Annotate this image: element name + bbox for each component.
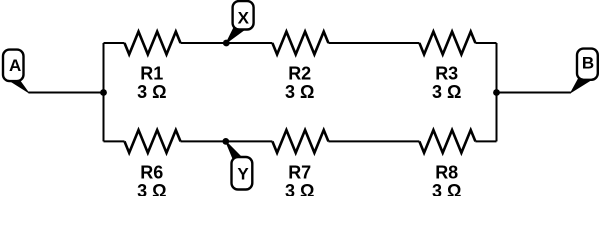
- svg-text:3 Ω: 3 Ω: [285, 82, 314, 102]
- node flag Y: [226, 141, 253, 189]
- wire R7 to R8: [328, 140, 419, 142]
- wire R6 to R7 (node Y segment): [181, 140, 273, 142]
- junction dot right node: [493, 89, 500, 96]
- resistor R2: [272, 32, 328, 55]
- label R6 designator text: [140, 162, 163, 182]
- node Y junction dot: [222, 138, 229, 145]
- svg-text:R6: R6: [140, 162, 163, 182]
- label R6 value "3 Ohm": [137, 181, 166, 201]
- label R3 designator text: [435, 63, 458, 83]
- resistor R6: [125, 130, 181, 153]
- label R2 value "3 Ohm": [285, 82, 314, 102]
- label R7 designator text: [288, 162, 311, 182]
- wire left vertical: [103, 43, 105, 141]
- label R7 value "3 Ohm": [285, 181, 314, 201]
- svg-text:R8: R8: [435, 162, 458, 182]
- node X junction dot: [223, 40, 230, 47]
- wire top stub right: [475, 42, 496, 44]
- resistor R7: [272, 130, 328, 153]
- label R3 value "3 Ohm": [432, 82, 461, 102]
- svg-text:3 Ω: 3 Ω: [285, 181, 314, 196]
- label R1 designator text: [140, 63, 163, 83]
- svg-text:3 Ω: 3 Ω: [137, 82, 166, 102]
- wire R2 to R3: [328, 42, 419, 44]
- label R8 designator text: [435, 162, 458, 182]
- node flag B: [571, 49, 598, 93]
- svg-text:R7: R7: [288, 162, 311, 182]
- wire bottom stub right: [475, 140, 496, 142]
- junction dot left node: [100, 89, 107, 96]
- svg-text:A: A: [9, 56, 21, 75]
- wire R1 to R2 (node X segment): [181, 42, 273, 44]
- label R1 value "3 Ohm": [137, 82, 166, 102]
- node flag A: [3, 50, 28, 93]
- wire right vertical: [496, 43, 498, 141]
- svg-text:3 Ω: 3 Ω: [432, 82, 461, 102]
- svg-text:R3: R3: [435, 63, 458, 83]
- label R8 value "3 Ohm": [432, 181, 461, 201]
- svg-text:R1: R1: [140, 63, 163, 83]
- svg-text:Y: Y: [237, 165, 249, 184]
- resistor R1: [125, 32, 181, 55]
- svg-text:3 Ω: 3 Ω: [432, 181, 461, 196]
- svg-text:3 Ω: 3 Ω: [137, 181, 166, 196]
- wire top stub left: [104, 42, 125, 44]
- label R2 designator text: [288, 63, 311, 83]
- wire bottom stub left: [104, 140, 125, 142]
- svg-text:R2: R2: [288, 63, 311, 83]
- svg-text:B: B: [582, 54, 594, 73]
- resistor R8: [419, 130, 475, 153]
- node flag X: [226, 1, 253, 43]
- wire A lead: [28, 92, 103, 94]
- resistor R3: [419, 32, 475, 55]
- wire B lead: [497, 92, 571, 94]
- svg-text:X: X: [238, 8, 250, 27]
